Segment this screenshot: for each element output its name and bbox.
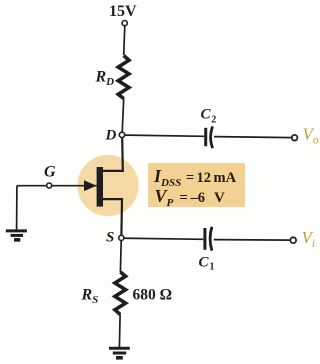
- svg-text:680 Ω: 680 Ω: [133, 287, 173, 304]
- annotation box: [148, 163, 245, 207]
- supply terminal 15V: [122, 21, 127, 26]
- svg-text:mA: mA: [214, 170, 237, 186]
- wire RS to ground: [118, 315, 121, 348]
- capacitor C2: [204, 128, 207, 146]
- ground (bottom): [109, 347, 130, 350]
- svg-text:G: G: [44, 164, 56, 181]
- svg-text:12: 12: [197, 170, 212, 186]
- svg-text:C: C: [201, 107, 212, 123]
- svg-text:1: 1: [210, 262, 215, 273]
- wire node S to RS: [119, 241, 122, 273]
- svg-text:15V: 15V: [109, 3, 137, 20]
- wire C2 to Vo terminal: [214, 137, 292, 138]
- wire node S to C1: [124, 238, 203, 239]
- transistor Q1 drain lead: [103, 138, 123, 171]
- resistor RD: [118, 56, 129, 99]
- wire node D to C2: [125, 135, 204, 136]
- node D: [119, 132, 124, 137]
- transistor Q1 channel bar: [97, 167, 103, 207]
- svg-text:S: S: [106, 230, 114, 246]
- wire supply to RD: [124, 26, 125, 55]
- resistor RS: [115, 272, 126, 315]
- gate arrow: [84, 180, 97, 191]
- svg-text:V: V: [214, 190, 225, 206]
- svg-text:D: D: [105, 128, 117, 144]
- capacitor C1: [203, 228, 206, 250]
- ground (left): [6, 229, 27, 232]
- wire gate to ground: [16, 186, 18, 230]
- terminal Vo: [292, 135, 298, 141]
- svg-text:=: =: [186, 170, 194, 186]
- wire RD to node D: [122, 99, 124, 133]
- gate wire: [17, 185, 97, 187]
- JFET highlight circle: [77, 155, 138, 216]
- gate node: [47, 183, 52, 188]
- terminal Vi: [290, 237, 296, 243]
- node S: [119, 235, 124, 240]
- svg-text:C: C: [199, 255, 210, 271]
- wire C1 to Vi terminal: [214, 239, 290, 242]
- transistor Q1 source lead: [103, 199, 122, 235]
- svg-text:–6: –6: [190, 190, 206, 206]
- svg-text:2: 2: [211, 115, 216, 126]
- svg-text:=: =: [180, 190, 188, 206]
